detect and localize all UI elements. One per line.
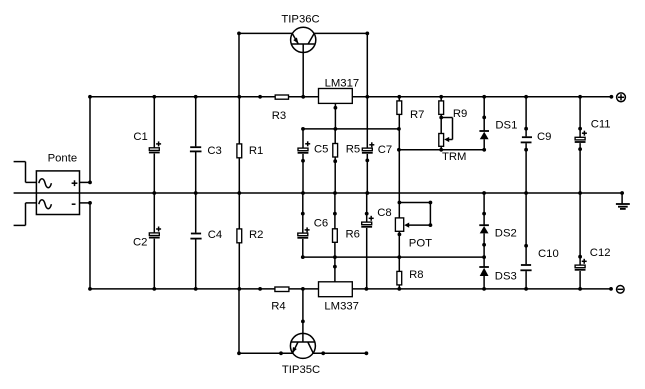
resistor R5 (333, 129, 338, 193)
svg-text:C5: C5 (314, 144, 328, 156)
transistor TIP36C (291, 27, 316, 97)
node dots rail B (152, 191, 624, 195)
trimmer TRM (439, 118, 453, 147)
svg-text:R2: R2 (249, 229, 263, 241)
svg-text:C9: C9 (537, 131, 551, 143)
svg-text:POT: POT (409, 238, 432, 250)
wire rail D (top transistor rail) (237, 32, 369, 36)
resistor R2 (237, 229, 242, 243)
svg-text:C12: C12 (590, 247, 611, 259)
wire AC input top (14, 162, 37, 183)
transistor TIP35C (279, 289, 325, 359)
resistor R1 (237, 144, 242, 158)
wire C5 column (301, 129, 305, 193)
capacitor C12 (575, 259, 587, 270)
wire Ponte + output (80, 181, 92, 185)
capacitor C11 (575, 131, 587, 142)
svg-text:R7: R7 (410, 109, 424, 121)
capacitor C7 (362, 142, 374, 153)
op-amp U2 LM337 regulator box (319, 282, 353, 297)
svg-text:C3: C3 (207, 145, 221, 157)
wire AC input bottom (14, 203, 37, 226)
diode DS2 (479, 193, 489, 268)
capacitor C10 (520, 265, 531, 270)
capacitor C4 (190, 234, 201, 239)
capacitor C5 (298, 141, 311, 153)
svg-text:TIP36C: TIP36C (281, 14, 319, 26)
wire rail C (negative rail y=288.9) (90, 288, 611, 290)
svg-text:LM337: LM337 (324, 300, 359, 312)
resistor R7 (397, 101, 402, 115)
wire C6 column (301, 193, 305, 257)
svg-text:TRM: TRM (442, 151, 466, 163)
capacitor C9 (521, 137, 532, 142)
wire ADJ- line y=257.1 (301, 255, 486, 259)
potentiometer POT (395, 201, 432, 237)
svg-text:R9: R9 (453, 108, 467, 120)
svg-text:R5: R5 (346, 144, 360, 156)
resistor R6 (333, 193, 338, 257)
capacitor C3 (190, 147, 202, 151)
op-amp U1 LM317 regulator box (319, 89, 353, 104)
wire TRM line y=149.8 (397, 148, 486, 152)
node dots rail E (237, 351, 368, 355)
wire left column x=90 (89, 97, 91, 289)
wire rail B (ground mid rail y=193) (14, 192, 623, 194)
svg-text:TIP35C: TIP35C (282, 364, 320, 376)
node dots rail C (88, 287, 613, 291)
resistor R4 (275, 287, 289, 292)
wire C8 column (365, 193, 369, 289)
terminal + output (617, 93, 626, 102)
svg-text:R6: R6 (346, 229, 360, 241)
svg-text:C8: C8 (377, 207, 391, 219)
svg-text:DS3: DS3 (495, 271, 517, 283)
wire C1/C2 column x=154.3 (153, 97, 155, 289)
capacitor C6 (297, 227, 309, 237)
svg-text:R8: R8 (409, 269, 423, 281)
wire R7/POT/R8 column x=399.3 (398, 97, 400, 289)
svg-text:C2: C2 (133, 237, 147, 249)
svg-text:R1: R1 (249, 145, 263, 157)
wire LM337 ADJ pin (333, 257, 337, 282)
ground (616, 193, 630, 209)
wire column x=239 upper (rail D to rail A) (238, 33, 240, 96)
diode DS3 (479, 267, 489, 289)
resistor R3 (275, 95, 288, 99)
capacitor C8 (361, 216, 373, 227)
resistor R9 (439, 97, 444, 150)
wire rail A (positive unreg/reg rail y=96.8) (90, 96, 611, 98)
wire C11/C12 column x=580.1 (578, 97, 582, 289)
capacitor C2 (149, 227, 161, 238)
wire rail E (bottom transistor rail) (239, 352, 366, 354)
wire R1/R2 column x=239.3 (238, 97, 240, 289)
svg-text:Ponte: Ponte (48, 152, 78, 164)
svg-text:C6: C6 (314, 218, 328, 230)
svg-text:DS2: DS2 (495, 228, 517, 240)
svg-text:C1: C1 (133, 131, 147, 143)
svg-text:C10: C10 (538, 248, 559, 260)
capacitor C1 (149, 141, 161, 152)
wire C7 column (365, 33, 369, 193)
bridge Ponte (36, 171, 79, 215)
svg-text:DS1: DS1 (495, 120, 517, 132)
terminal - output (617, 286, 625, 294)
wire ADJ+ line y=128.9 (301, 127, 401, 131)
svg-text:LM317: LM317 (325, 78, 360, 90)
svg-text:C11: C11 (591, 119, 611, 131)
wire C9/C10 column x=526.1 (524, 97, 528, 289)
svg-text:R3: R3 (272, 110, 286, 122)
diode DS1 (479, 97, 489, 150)
resistor R8 (397, 271, 402, 285)
wire C3/C4 column x=195.7 (195, 97, 197, 289)
wire Ponte - output (80, 201, 92, 205)
wire column x=239 lower (rail C to rail E) (238, 289, 240, 353)
wire LM317 ADJ pin (334, 103, 338, 128)
svg-text:R4: R4 (271, 300, 285, 312)
svg-text:C7: C7 (378, 144, 392, 156)
svg-text:C4: C4 (208, 229, 222, 241)
node dots rail A (88, 95, 613, 99)
